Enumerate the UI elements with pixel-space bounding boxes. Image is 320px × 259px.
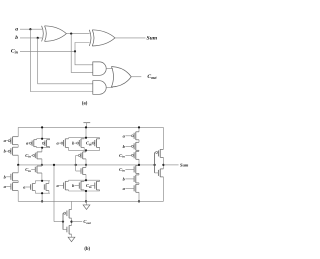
transistor N-b right stack [134,175,139,183]
ntrio a top riser [68,180,70,181]
input wire b [20,37,42,39]
ntrio Cin top riser [99,180,101,181]
svg-text:Cin: Cin [86,183,92,189]
label b rstackP [123,144,126,149]
ntrio top wire [69,179,100,181]
transistor P-a sum trio [61,139,69,148]
dot npair gnd [41,200,43,202]
wire N5 gate [31,169,35,171]
wire inv out node [162,157,164,169]
wire Cin to AND1 [75,51,93,64]
wire ab to AND1 [71,34,93,73]
label Cin rstackN [119,167,125,173]
wire left nmos chain [17,165,19,202]
wire b rstackN gate [125,178,134,180]
transistor P3 gate a [30,140,37,147]
node b branch dot [37,37,39,39]
svg-text:a: a [15,26,18,32]
transistor N5 gate Cin [35,166,42,173]
wire a to AND2 [30,29,92,91]
input label Cin [11,48,19,54]
dot pair bottom [41,147,43,149]
label b rstackN [123,176,126,181]
wire N9 drain [85,175,87,181]
transistor N-Cin right stack [134,165,139,173]
label Cout out [83,219,90,225]
dot right chain gnd [138,200,140,202]
svg-text:Cout: Cout [83,219,90,225]
wire Sum output [115,37,146,39]
wire P5 to mid [41,159,43,165]
wire b to AND2 [38,38,93,84]
input wire Cin [20,50,75,52]
dot inv out [162,164,164,166]
wire Cin riser to X2 [75,43,90,52]
ntrio b top riser [83,180,85,181]
svg-text:Cin: Cin [119,167,125,173]
wire P3 gate [28,142,31,144]
wire Cin rstackN gate [125,168,134,170]
svg-text:Cout: Cout [147,74,157,80]
and gate A2 [93,81,106,95]
transistor P5 gate Cin [33,152,42,159]
vdd rail [18,126,163,128]
label Cin N8 [86,183,92,189]
label b trio [72,141,75,146]
label a trio [56,141,59,146]
cinv gate vertical [62,213,64,229]
ntrio a bottom riser [68,190,70,191]
dot vdd trio [85,126,87,128]
wire right chain [138,127,140,201]
dot ntrio gnd [85,200,87,202]
transistor P-Cin sum trio [92,139,100,148]
input wire a [20,28,42,30]
svg-text:(b): (b) [84,247,90,252]
transistor P-a right stack [132,132,140,140]
label a rstackN [123,186,126,191]
label a N1 [4,184,7,189]
wire Sum out [163,164,178,166]
input label a [15,26,18,32]
node a branch dot [29,28,31,30]
dot npair top [41,180,43,182]
transistor P2 gate b [8,147,18,155]
wire a trio gate [59,142,61,144]
xor gate X2 [89,30,115,46]
cinv nmos [63,226,72,235]
transistor P1 gate a [8,137,18,145]
wire N9 source [85,165,87,168]
dot P9 drain mid [85,164,87,166]
trio Cin top riser [99,138,101,139]
node Cin branch dot [74,50,76,52]
dot mid left [17,164,19,166]
wire P9 source [85,150,87,152]
label b P2 [4,149,7,154]
transistor N4 gate b [44,184,49,191]
coutbar gate riser [75,155,77,171]
wire P9 gate riser [76,154,79,156]
transistor N-b sum trio [79,181,84,190]
wire a rstackN gate [125,187,134,189]
ntrio b bottom riser [83,190,85,191]
ntrio Cin bottom riser [99,190,101,191]
trio a bottom riser [68,147,70,150]
wire X1 output [66,33,89,35]
wire a ntrio gate [59,185,64,187]
label a P3 [26,141,29,146]
cinv pmos [67,210,72,219]
wire cinv gnd [71,234,73,237]
svg-text:Cin: Cin [25,167,31,173]
label b N2 [4,174,7,179]
label a P1 [4,138,7,143]
dot trio top [85,137,87,139]
wire left pmos chain [17,127,19,164]
output label Sum [147,35,158,41]
dot right chain vdd [138,126,140,128]
transistor N-a right stack [134,184,139,192]
label Sum out [180,162,189,167]
label Cin P8 [86,141,92,147]
label Cin rstackP [119,153,125,159]
output label Cout [147,74,157,80]
transistor N-a sum trio [64,181,69,190]
wire npair to gnd [41,193,43,201]
npair bottom wire [35,191,50,194]
pair top wire [37,139,50,140]
wire P1 gate [6,140,8,142]
wire N2 gate [6,176,11,178]
or gate O1 [111,67,131,88]
trio Cin bottom riser [99,147,101,150]
transistor N9 gate Coutbar [81,168,86,175]
wire vdd to pair [41,127,43,138]
wire N9 gate [76,170,81,172]
inverter U2 pmos [158,149,163,157]
wire P2 gate [6,150,8,152]
trio a top riser [68,138,70,139]
wire Cin trio gate [90,142,92,144]
gnd symbol rail [83,201,90,209]
dot ntrio bottom [85,190,87,192]
dot P5 drain [41,164,43,166]
trio b bottom riser [83,147,85,150]
svg-text:(a): (a) [82,102,88,107]
dot cinv gate [62,221,64,223]
svg-text:Cin: Cin [119,153,125,159]
wire b rstackP gate [125,145,131,147]
wire N5 drain [41,173,43,182]
ntrio bottom wire [69,190,100,192]
label a rstackP [123,133,126,138]
and gate A1 [93,62,106,75]
transistor P-Cin right stack [132,151,140,159]
wire a rstackP gate [125,135,131,137]
caption (b) [84,247,90,252]
svg-text:Cin: Cin [25,153,31,159]
dot right chain mid [138,164,140,166]
caption (a) [82,102,88,107]
wire b ntrio gate [75,185,80,187]
transistor P-b sum trio [77,139,85,148]
label Cin P5 [25,153,31,159]
dot coutbar feed [53,164,55,166]
gnd symbol cinv [68,237,75,242]
label b ntrio [72,183,75,188]
dot vdd pair [41,126,43,128]
transistor N-Cin sum trio [95,181,100,190]
wire coutbar feed [54,165,63,222]
wire Cin ntrio gate [90,185,95,187]
transistor P4 gate b [42,140,49,147]
gnd rail [18,200,163,202]
dot trio bottom [85,149,87,151]
inverter U2 gate vertical [154,152,156,173]
wire P5 gate [31,154,33,156]
wire P9 drain [85,159,87,165]
wire Cout output [131,76,141,78]
wire cinv out node [71,218,73,225]
transistor N3 gate a [31,184,36,191]
inverter U2 pmos bubble [156,151,158,153]
wire inv vdd [162,127,164,149]
wire cinv vdd [71,201,73,209]
trio b top riser [83,138,85,139]
transistor P9 gate Coutbar [78,152,86,159]
svg-text:Cin: Cin [86,141,92,147]
wire Cout out [72,221,83,223]
svg-text:b: b [15,35,18,41]
xor gate X1 [42,26,67,42]
svg-text:Sum: Sum [180,162,189,167]
node ab dot [70,33,72,35]
wire A1 to OR [106,68,113,70]
transistor N2 gate b [11,173,18,181]
cinv pmos bubble [64,212,66,214]
wire N1 gate [6,186,11,188]
pair bottom wire [37,147,50,148]
wire ntrio to gnd [85,191,87,201]
wire vdd to trio [85,127,87,137]
transistor N1 gate a [11,183,18,191]
inverter U2 nmos [155,169,164,177]
trio top wire [69,137,100,139]
transistor P-b right stack [132,142,140,150]
mid line [18,164,155,166]
wire inv gnd [162,177,164,202]
label Cin N5 [25,167,31,173]
wire b trio gate [75,142,77,144]
dot cinv out [70,221,72,223]
label a N3 [23,185,26,190]
wire N5 source [41,165,43,166]
wire A2 to OR [106,87,113,89]
npair top wire [35,181,50,184]
label a ntrio [56,183,59,188]
vdd supply symbol [83,123,90,128]
svg-text:Sum: Sum [147,35,158,41]
wire Cin rstackP gate [125,154,131,156]
wire pair to P5 [41,148,43,152]
trio bottom wire [69,149,100,151]
dot npair bottom [41,192,43,194]
svg-text:Cin: Cin [11,48,19,54]
wire N3 gate [26,186,31,188]
dot inv gate junction [154,164,156,166]
dot ntrio top [85,179,87,181]
input label b [15,35,18,41]
dot pair top [41,138,43,140]
dot mid gate riser [75,164,77,166]
